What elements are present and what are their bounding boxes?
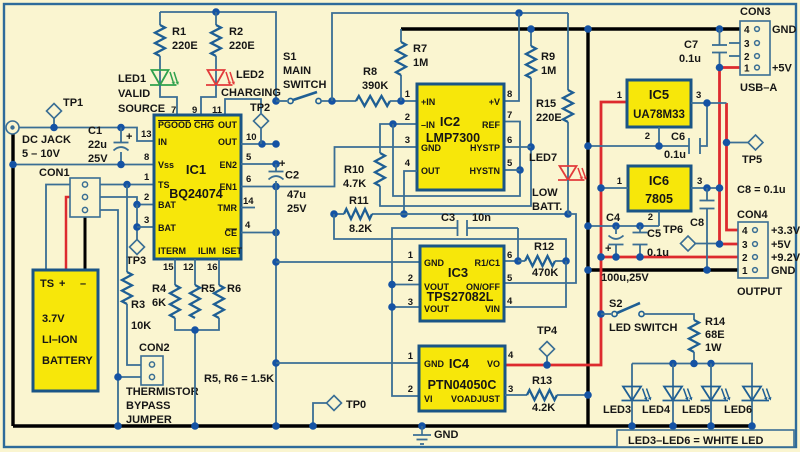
- svg-text:2: 2: [648, 212, 653, 223]
- svg-text:1: 1: [617, 90, 623, 101]
- node CE gnd: [272, 229, 280, 237]
- svg-text:LED5: LED5: [682, 404, 710, 416]
- wire R3 to CON2: [127, 304, 141, 365]
- svg-text:C2: C2: [285, 170, 299, 182]
- node TP1: [50, 124, 58, 132]
- svg-text:CON4: CON4: [737, 209, 768, 221]
- wire R13 left: [505, 394, 527, 396]
- svg-text:LED7: LED7: [529, 152, 557, 164]
- svg-text:CON3: CON3: [740, 6, 771, 18]
- svg-text:IC4: IC4: [449, 356, 470, 371]
- svg-text:R6: R6: [227, 283, 241, 295]
- wire LED6 cathode: [751, 401, 753, 427]
- wire LED7 down: [567, 180, 569, 214]
- svg-text:BATTERY: BATTERY: [42, 355, 93, 367]
- wire out to ONOFF: [504, 214, 576, 283]
- node VOUT pin2: [388, 281, 396, 289]
- LED1 green: [152, 70, 169, 85]
- resistor R3: [122, 272, 132, 304]
- svg-text:C8 = 0.1u: C8 = 0.1u: [737, 184, 786, 196]
- svg-text:6: 6: [507, 135, 512, 146]
- node +IN: [397, 97, 405, 105]
- svg-text:2: 2: [744, 52, 750, 63]
- svg-text:2: 2: [408, 384, 413, 395]
- svg-text:IC1: IC1: [186, 162, 206, 177]
- wire EN2 pin5: [241, 163, 276, 165]
- switch S1 contact right: [316, 98, 321, 103]
- svg-text:EN1: EN1: [219, 182, 237, 192]
- wire red 5V vertical: [720, 68, 741, 245]
- node LED4 rail: [669, 422, 677, 430]
- wire S1 right stub: [321, 100, 356, 102]
- wire gnd C4C5 line: [588, 225, 659, 227]
- node CON2 gnd: [114, 373, 122, 381]
- svg-text:OUT: OUT: [218, 120, 238, 130]
- svg-text:R13: R13: [532, 375, 552, 387]
- svg-text:GND: GND: [424, 359, 445, 369]
- svg-text:4: 4: [744, 25, 750, 36]
- svg-text:5: 5: [507, 158, 513, 169]
- node -IN junction: [389, 120, 397, 128]
- svg-text:LI–ION: LI–ION: [42, 334, 78, 346]
- node OUT TP2: [258, 140, 266, 148]
- wire out line to LED7: [404, 213, 568, 215]
- wire EN1 pin6: [241, 147, 417, 187]
- wire S2 to R14: [644, 314, 694, 320]
- svg-text:VI: VI: [424, 394, 433, 404]
- svg-text:R1/C1: R1/C1: [474, 258, 500, 268]
- capacitor C5 leads: [639, 226, 641, 233]
- wire LED2 to pin9: [201, 85, 216, 118]
- wire CON2 pin2: [118, 376, 141, 378]
- svg-text:TP5: TP5: [742, 154, 762, 166]
- svg-text:R2: R2: [229, 26, 243, 38]
- svg-text:R8: R8: [363, 66, 377, 78]
- capacitor C2 curved plate: [269, 176, 284, 179]
- wire jack to IN: [19, 128, 154, 142]
- svg-text:2: 2: [144, 192, 149, 203]
- wire LED5 anode: [710, 364, 712, 401]
- capacitor C6 plates: [688, 138, 690, 154]
- svg-text:C7: C7: [684, 39, 698, 51]
- node S2 in: [597, 310, 605, 318]
- resistor R13: [527, 390, 557, 400]
- svg-text:+5V: +5V: [771, 239, 792, 251]
- svg-text:CON1: CON1: [39, 167, 70, 179]
- svg-text:1W: 1W: [705, 342, 722, 354]
- wire CON3 pin2 stub: [729, 55, 740, 57]
- svg-text:22u: 22u: [88, 139, 107, 151]
- svg-text:16: 16: [207, 262, 218, 273]
- svg-text:BAT: BAT: [158, 200, 176, 210]
- node gnd C6: [584, 142, 592, 150]
- svg-text:–: –: [80, 278, 86, 290]
- wire S2 left stub: [601, 313, 611, 315]
- wire LED4 cathode: [672, 401, 674, 427]
- node IC6 out red: [716, 184, 724, 192]
- node bus rail: [191, 422, 199, 430]
- wire R1 to LED1: [159, 56, 161, 85]
- node R11 left: [330, 210, 338, 218]
- svg-text:2: 2: [408, 273, 413, 284]
- svg-text:7: 7: [507, 110, 512, 121]
- svg-text:R14: R14: [705, 316, 726, 328]
- svg-text:GND: GND: [772, 24, 797, 36]
- testpoint TP2: [254, 114, 269, 129]
- wire R15 top lead: [567, 13, 569, 90]
- svg-text:USB–A: USB–A: [740, 82, 777, 94]
- ic IC4 PTN04050C box: [419, 346, 505, 411]
- wire ILIM down: [194, 259, 196, 285]
- LED5 white: [702, 387, 720, 401]
- svg-text:0.1u: 0.1u: [664, 149, 686, 161]
- capacitor C1 leads: [120, 128, 122, 143]
- node C7 top: [716, 25, 724, 33]
- wire IC6 pin1: [601, 187, 628, 189]
- svg-text:6K: 6K: [152, 297, 166, 309]
- svg-text:BQ24074: BQ24074: [169, 187, 223, 201]
- node LED5 rail: [707, 422, 715, 430]
- svg-text:SOURCE: SOURCE: [118, 103, 165, 115]
- svg-text:5: 5: [246, 152, 252, 163]
- svg-text:13: 13: [141, 129, 152, 140]
- battery BT1: [33, 270, 98, 391]
- node bus: [191, 326, 199, 334]
- capacitor C5 plates: [633, 232, 648, 234]
- node HYSTN junction: [516, 166, 524, 174]
- svg-text:100u,25V: 100u,25V: [601, 272, 649, 284]
- svg-text:R12: R12: [534, 241, 554, 253]
- testpoint TP3: [130, 240, 145, 255]
- svg-text:IC3: IC3: [448, 265, 468, 280]
- svg-text:PGOOD: PGOOD: [158, 120, 192, 130]
- svg-text:PTN04050C: PTN04050C: [428, 378, 497, 392]
- svg-text:TP4: TP4: [537, 325, 558, 337]
- resistor R4: [170, 285, 180, 318]
- svg-text:8: 8: [507, 89, 512, 100]
- svg-text:+3.3V: +3.3V: [771, 225, 800, 237]
- svg-text:R15: R15: [536, 98, 556, 110]
- svg-text:25V: 25V: [287, 203, 307, 215]
- svg-text:GND: GND: [771, 265, 796, 277]
- connector CON4: [738, 222, 768, 278]
- wire pin11 to TP2: [225, 99, 261, 118]
- svg-text:BATT.: BATT.: [532, 201, 562, 213]
- resistor R5: [190, 285, 200, 318]
- switch S2 contact right: [639, 311, 644, 316]
- wire CON1 pin1 to TS: [100, 184, 154, 186]
- svg-text:+: +: [279, 158, 285, 170]
- wire black ground vertical: [586, 29, 589, 426]
- node IC5 out: [703, 99, 711, 107]
- svg-text:C1: C1: [88, 125, 102, 137]
- testpoint TP0: [327, 396, 342, 411]
- svg-text:TMR: TMR: [218, 203, 238, 213]
- svg-text:TP0: TP0: [346, 399, 366, 411]
- node LED6 rail: [748, 422, 756, 430]
- svg-text:ILIM: ILIM: [198, 246, 216, 256]
- wire red battery positive: [66, 197, 70, 271]
- svg-text:REF: REF: [482, 120, 501, 130]
- svg-text:R1: R1: [172, 26, 186, 38]
- switch S2 contact left: [612, 311, 617, 316]
- resistor R7: [396, 42, 406, 75]
- svg-text:10: 10: [246, 132, 257, 143]
- wire OUT pin10: [241, 143, 276, 145]
- svg-text:1: 1: [144, 172, 150, 183]
- svg-text:3: 3: [696, 90, 701, 101]
- svg-text:SWITCH: SWITCH: [283, 79, 326, 91]
- node R12 left: [514, 257, 522, 265]
- capacitor C3 plates: [457, 220, 459, 236]
- svg-text:10K: 10K: [131, 320, 151, 332]
- node BAT3 junction: [133, 223, 141, 231]
- wire C3 branch: [467, 227, 518, 229]
- node EN1 C2: [272, 183, 280, 191]
- wire HYSTN pin5: [504, 169, 520, 171]
- svg-text:47u: 47u: [287, 189, 306, 201]
- svg-text:MAIN: MAIN: [283, 65, 311, 77]
- svg-text:8.2K: 8.2K: [349, 223, 372, 235]
- wire TP5 stub: [727, 142, 749, 144]
- svg-text:LED6: LED6: [724, 404, 752, 416]
- wire R2 to LED2: [215, 56, 217, 85]
- wire LED3 cathode: [631, 401, 633, 427]
- testpoint TP5: [748, 135, 763, 150]
- wire red 3.3V vertical: [727, 103, 739, 230]
- node EN2 C2: [272, 160, 280, 168]
- wire IC5 pin2 stub: [658, 127, 660, 146]
- wire REF loop: [393, 122, 520, 197]
- svg-text:3: 3: [405, 135, 410, 146]
- svg-text:15: 15: [163, 262, 174, 273]
- svg-text:12: 12: [183, 262, 194, 273]
- svg-text:HYSTP: HYSTP: [470, 143, 500, 153]
- svg-text:GND: GND: [424, 258, 445, 268]
- wire TMR stub: [241, 207, 255, 209]
- svg-text:220E: 220E: [172, 40, 198, 52]
- LED3 white: [623, 387, 641, 401]
- wire S1 left stub: [276, 100, 287, 102]
- svg-text:3: 3: [408, 297, 413, 308]
- svg-text:4: 4: [507, 296, 513, 307]
- svg-text:HYSTN: HYSTN: [469, 166, 500, 176]
- svg-text:5: 5: [507, 273, 513, 284]
- testpoint TP6: [681, 236, 696, 251]
- node TP4: [543, 361, 551, 369]
- wire R12 leads: [518, 260, 525, 262]
- wire red 9.2V from IC4 VO: [505, 102, 627, 365]
- wire black dc-jack sleeve down: [11, 132, 14, 426]
- resistor R14: [689, 320, 699, 352]
- svg-text:R7: R7: [413, 43, 427, 55]
- svg-text:4: 4: [742, 226, 748, 237]
- LED7 red: [560, 166, 577, 180]
- resistor R10: [375, 153, 385, 186]
- svg-text:+V: +V: [489, 97, 500, 107]
- dc jack symbol: [6, 121, 19, 134]
- svg-text:+: +: [59, 278, 65, 290]
- wire TP6 stub: [694, 243, 720, 245]
- svg-text:LED4: LED4: [642, 404, 671, 416]
- capacitor C7 leads: [719, 29, 721, 45]
- svg-text:14: 14: [243, 196, 254, 207]
- svg-text:S2: S2: [609, 298, 622, 310]
- svg-text:R11: R11: [349, 195, 369, 207]
- wire IC6 pin2 stub: [658, 211, 660, 226]
- svg-text:+9.2V: +9.2V: [771, 252, 800, 264]
- wire BAT bus: [136, 205, 138, 241]
- svg-text:TS: TS: [40, 278, 54, 290]
- wire gnd net vertical: [275, 187, 277, 427]
- svg-text:VOUT: VOUT: [424, 304, 450, 314]
- svg-text:LED2: LED2: [236, 69, 264, 81]
- wire C6 right up: [700, 103, 707, 146]
- node LED7 cathode: [564, 210, 572, 218]
- node LED3 rail: [628, 422, 636, 430]
- wire R2 top lead: [215, 12, 217, 25]
- svg-text:TPS27082L: TPS27082L: [427, 290, 494, 304]
- svg-text:VIN: VIN: [485, 304, 500, 314]
- wire R11 to R12: [334, 214, 566, 261]
- white led note box: [617, 430, 794, 447]
- svg-text:TP6: TP6: [663, 224, 683, 236]
- resistor R2: [211, 25, 221, 56]
- svg-text:C5: C5: [647, 228, 661, 240]
- svg-text:Vss: Vss: [158, 160, 174, 170]
- node CON1-3 rail: [114, 422, 122, 430]
- node C7 bottom: [716, 64, 724, 72]
- svg-text:3: 3: [742, 240, 748, 251]
- svg-text:BAT: BAT: [158, 223, 176, 233]
- svg-text:IC2: IC2: [440, 114, 460, 129]
- connector CON3: [740, 21, 770, 75]
- svg-text:JUMPER: JUMPER: [126, 414, 172, 426]
- wire R12 to VIN: [504, 261, 566, 307]
- capacitor C1 flat plate: [114, 142, 129, 144]
- svg-text:LED SWITCH: LED SWITCH: [609, 322, 677, 334]
- wire TP4 stub: [546, 356, 548, 365]
- wire top supply: [160, 12, 276, 101]
- node C4 bottom: [612, 253, 620, 261]
- wire HYSTP pin6: [504, 146, 531, 148]
- node black vertical top: [584, 25, 592, 33]
- wire R8 to +IN: [390, 100, 417, 102]
- svg-text:LED3–LED6 = WHITE LED: LED3–LED6 = WHITE LED: [628, 435, 763, 447]
- node black con4 junction: [584, 266, 592, 274]
- svg-text:1: 1: [744, 64, 750, 75]
- svg-text:GND: GND: [434, 429, 459, 441]
- wire battery TS: [46, 185, 70, 272]
- LED2 red: [208, 70, 225, 85]
- node IC5 gnd: [655, 142, 663, 150]
- svg-text:R10: R10: [344, 164, 364, 176]
- wire CON1 pin3 right: [100, 210, 118, 426]
- svg-text:IC6: IC6: [649, 173, 669, 188]
- svg-text:470K: 470K: [532, 267, 558, 279]
- node C5 bottom: [636, 253, 644, 261]
- wire black ground to CON4 pin1: [588, 268, 738, 271]
- svg-text:3: 3: [508, 384, 513, 395]
- node gnd symbol: [418, 422, 426, 430]
- svg-text:4.7K: 4.7K: [343, 178, 366, 190]
- svg-text:68E: 68E: [705, 329, 725, 341]
- node plusV top: [515, 9, 523, 17]
- node R13 gnd: [584, 391, 592, 399]
- svg-text:1M: 1M: [413, 57, 428, 69]
- connector CON1: [70, 178, 100, 217]
- connector CON2: [141, 356, 163, 385]
- ic IC1 BQ24074 box: [154, 115, 241, 259]
- svg-text:+5V: +5V: [772, 63, 793, 75]
- capacitor C4 curved plate: [609, 236, 624, 239]
- svg-text:220E: 220E: [536, 112, 562, 124]
- node S1 left: [272, 97, 280, 105]
- svg-text:C8: C8: [690, 217, 704, 229]
- svg-text:1M: 1M: [541, 65, 556, 77]
- svg-text:3: 3: [144, 215, 149, 226]
- svg-text:4: 4: [245, 220, 251, 231]
- wire CE pin4: [241, 232, 276, 234]
- svg-text:IC5: IC5: [649, 87, 669, 102]
- node red 9.2 junction: [597, 253, 605, 261]
- svg-text:+: +: [126, 131, 132, 143]
- wire R9 bottom to R10: [380, 78, 531, 206]
- LED4 white: [664, 387, 682, 401]
- svg-text:3: 3: [744, 39, 750, 50]
- wire TP0 stub: [313, 403, 327, 426]
- svg-text:ISET: ISET: [222, 246, 243, 256]
- switch S2 blade: [617, 303, 640, 313]
- wire R14 down: [693, 352, 695, 364]
- node TS junction: [123, 181, 131, 189]
- wire LED5 cathode: [710, 401, 712, 427]
- wire LED3 anode: [631, 364, 633, 401]
- svg-text:LED3: LED3: [603, 404, 631, 416]
- wire Vss line: [13, 164, 154, 166]
- svg-text:1: 1: [405, 89, 411, 100]
- switch S1 blade: [293, 92, 317, 100]
- svg-text:R3: R3: [131, 299, 145, 311]
- capacitor C4 flat plate: [609, 244, 624, 246]
- svg-text:CON2: CON2: [139, 342, 170, 354]
- svg-text:THERMISTOR: THERMISTOR: [126, 386, 199, 398]
- svg-text:DC JACK: DC JACK: [22, 134, 71, 146]
- svg-text:5 – 10V: 5 – 10V: [22, 148, 61, 160]
- wire TP1 stub: [53, 118, 55, 128]
- svg-text:VALID: VALID: [118, 88, 150, 100]
- wire gnd C6 line: [588, 145, 689, 147]
- svg-text:LOW: LOW: [532, 187, 558, 199]
- resistor R9: [526, 46, 536, 78]
- node TP5: [723, 139, 731, 147]
- svg-text:+: +: [605, 243, 611, 255]
- node HYSTP junction: [527, 143, 535, 151]
- ic IC6 7805 box: [628, 166, 691, 211]
- svg-text:C3: C3: [441, 212, 455, 224]
- svg-text:EN2: EN2: [219, 160, 237, 170]
- svg-text:6: 6: [507, 250, 512, 261]
- svg-text:R4: R4: [152, 283, 167, 295]
- node IC6 out C8: [703, 184, 711, 192]
- node gnd net rail: [272, 422, 280, 430]
- node Vss black: [9, 161, 17, 169]
- svg-text:S1: S1: [283, 51, 296, 63]
- svg-text:TP1: TP1: [63, 97, 83, 109]
- svg-text:0.1u: 0.1u: [647, 247, 669, 259]
- node C1 bottom: [117, 161, 125, 169]
- wire bus to gnd: [194, 330, 196, 426]
